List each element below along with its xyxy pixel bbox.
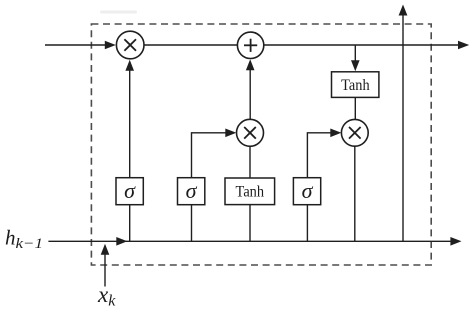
wire: M3 down to bottom line [354,146,356,241]
scan smudge top-left [100,11,137,14]
wire: M2 up into A1 with arrowhead [246,59,255,119]
plus node A1 (cell state sum) [237,32,263,58]
label h_{k-1} [5,226,43,253]
svg-text:Tanh: Tanh [341,77,370,94]
tanh box T1 (cell state squash) [332,72,379,98]
svg-text:σ: σ [124,178,136,203]
sigma box S2 (input gate) [178,178,205,205]
wire: sigma1 down to bottom line [129,205,131,242]
tanh box T2 (candidate) [225,178,275,205]
svg-text:hk−1: hk−1 [5,226,43,253]
wire: sigma1 up into M1 with arrowhead [125,60,134,178]
multiply node M3 (output product) [341,119,368,146]
multiply node M2 (input gate product) [237,119,264,146]
wire: sigma3 down to bottom line [306,205,308,242]
wire: T2 down to bottom line [249,205,251,242]
svg-text:σ: σ [302,178,314,203]
wire: T1 down to M3 [354,97,356,119]
label x_k [97,282,116,310]
wire: top line between multiply and plus [144,44,237,46]
sigma box S1 (forget gate) [116,178,143,205]
wire: sigma2 down to bottom line [191,205,193,242]
wire: T2 up to M2 [249,146,251,178]
wire: sigma2 up then right into M2 with arrowhead [192,129,237,178]
svg-text:Tanh: Tanh [236,184,265,201]
svg-text:σ: σ [186,178,198,203]
wire: top line down into T1 with arrowhead [351,45,360,71]
wire: x_k input up arrow [101,244,110,287]
wire: hidden state up output arrow [399,5,408,242]
multiply node M1 (forget gate product) [116,31,144,59]
wire: sigma3 up then right into M3 with arrowhead [307,129,341,178]
dashed LSTM cell boundary [91,24,431,265]
wire: bottom hidden-state line with junction arrowhead and right output arrow [48,237,461,246]
wire: top cell-state line input segment [45,41,116,50]
sigma box S3 (output gate) [293,178,320,205]
wire: top line from plus to right output arrow [264,41,469,50]
svg-text:xk: xk [97,282,116,310]
